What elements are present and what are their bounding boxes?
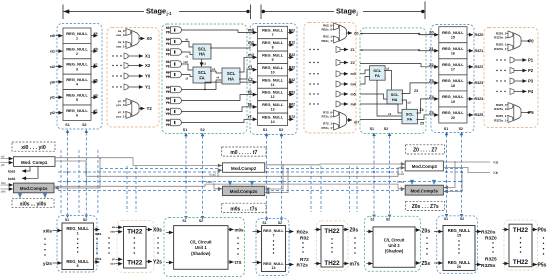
svg-text:R02s_0: R02s_0 [321, 28, 332, 32]
dashed label box xi0s...yi0s [12, 199, 54, 208]
output xc [91, 63, 98, 67]
module comparator Mod.Comp2s [223, 186, 265, 195]
svg-text:yc: yc [94, 109, 98, 113]
wire FA1 sum s2 [384, 66, 391, 89]
feedback wire comp2s b [265, 168, 289, 193]
register REG_NULL 10 [258, 64, 288, 76]
svg-text:R3Z0s_0: R3Z0s_0 [494, 36, 507, 40]
select bus horizontal S2 [58, 181, 463, 183]
select vertical S2 C/L 2 [388, 133, 392, 218]
register REG_NULL 13 [258, 101, 288, 113]
svg-text:REG_NULL: REG_NULL [442, 94, 464, 99]
half adder SCL HA 2-1 [387, 90, 403, 104]
svg-text:R3Z0_1: R3Z0_1 [496, 43, 507, 47]
input label c1 [248, 65, 253, 70]
module comparator Mod.Comp1s [14, 183, 55, 193]
AND gate G7 inputs X2 Y1 [166, 96, 182, 105]
svg-text:c1: c1 [203, 62, 207, 66]
select stub into comp2s a [229, 182, 231, 186]
svg-text:R02s: R02s [297, 230, 309, 236]
wire Z1 through [360, 49, 438, 51]
svg-text:14: 14 [271, 120, 275, 124]
input label t5 [248, 90, 252, 95]
shadow register block REG_NULL 7-14 [262, 226, 286, 272]
svg-text:yc_1: yc_1 [118, 110, 125, 114]
svg-text:R32: R32 [289, 66, 295, 70]
select vertical stub mux1 a [126, 166, 128, 212]
wire into C/L2 top [367, 231, 373, 233]
select vertical S2 column 3 [460, 132, 464, 218]
output R22 [288, 53, 296, 57]
svg-text:Koa2: Koa2 [209, 172, 216, 176]
output R3Z5 [467, 113, 483, 117]
register REG_NULL 14 [258, 113, 288, 125]
label R3Z5 [485, 256, 497, 262]
wire into B3 bottom [434, 262, 443, 264]
svg-text:Z3: Z3 [429, 78, 434, 83]
condensed mux row P2 [496, 68, 533, 74]
svg-text:Z1: Z1 [429, 46, 434, 51]
shadow C/L circuit unit 2 box [373, 227, 415, 267]
register REG_NULL 20 [439, 107, 467, 123]
select stub into xi0s box a [19, 193, 21, 198]
svg-text:REG_NULL: REG_NULL [262, 90, 284, 95]
full adder SCL FA 2-1 [370, 66, 386, 81]
B2 output R72s [286, 263, 309, 269]
feedback wire comp3s b [444, 172, 463, 192]
register REG_NULL 6 [63, 105, 91, 120]
svg-text:6: 6 [76, 114, 78, 118]
output R02 [288, 28, 296, 32]
wire m5 into HA [360, 94, 387, 99]
svg-text:P2: P2 [528, 68, 534, 73]
svg-text:Z3: Z3 [414, 89, 418, 93]
svg-text:R72_1: R72_1 [323, 122, 332, 126]
svg-text:9: 9 [272, 58, 274, 62]
svg-text:Mod.Comp1s: Mod.Comp1s [20, 186, 48, 191]
input yi1 [50, 96, 63, 100]
shadow input xi0s [43, 228, 61, 233]
th22 output X0s [146, 228, 162, 234]
AND gate G4 inputs X1 Y1 [166, 60, 182, 69]
dashed container register column 3 [431, 25, 474, 133]
dashed container mux column 1 [107, 28, 159, 128]
output xb [91, 47, 98, 51]
svg-text:R72s: R72s [297, 263, 309, 269]
svg-text:P0: P0 [529, 39, 535, 44]
register REG_NULL 8 [258, 39, 288, 51]
svg-text:m6: m6 [351, 102, 356, 106]
condensed mux row m5 [309, 91, 355, 97]
wire Z2 through [360, 64, 438, 67]
svg-text:P5: P5 [529, 110, 535, 115]
C/L2 output dots [426, 237, 427, 254]
input label Z0 [429, 30, 434, 35]
svg-text:Z5s: Z5s [422, 261, 431, 267]
AND gate G8 inputs X1 Y2 [166, 107, 182, 116]
module comparator Mod.Comp2 [223, 163, 265, 173]
svg-text:S2: S2 [82, 123, 86, 127]
svg-text:t12: t12 [184, 60, 189, 64]
svg-text:xa: xa [112, 225, 116, 229]
wire m4 into FA [360, 77, 370, 85]
svg-text:13: 13 [271, 108, 275, 112]
condensed mux row Z1 [309, 47, 354, 53]
svg-text:R72s_0: R72s_0 [321, 115, 332, 119]
label R72 [300, 257, 309, 263]
output xa [91, 32, 98, 36]
wire into C/L1 bottom [166, 262, 173, 264]
svg-text:R02: R02 [289, 28, 295, 32]
input wires into Mod.Comp1 [1, 156, 13, 167]
select stub into xi0s box b [44, 193, 46, 198]
svg-text:yi0: yi0 [50, 80, 55, 84]
svg-text:t0: t0 [186, 38, 189, 42]
condensed mux row X2 [112, 63, 151, 69]
dashed container TH22 column 2 [317, 221, 349, 271]
B2 output R02s [286, 230, 309, 236]
label R3Z0 [485, 236, 497, 242]
svg-text:m1: m1 [248, 40, 255, 45]
condensed mux row Y0 [112, 73, 151, 79]
wire m6 into FA2 [360, 104, 402, 113]
wire HA2 carry to c1 input [239, 70, 257, 79]
svg-text:t7S: t7S [235, 260, 242, 265]
output ya [91, 78, 98, 82]
mux X0 [116, 29, 152, 49]
select bus horizontal upper [100, 168, 463, 170]
svg-text:kob1: kob1 [8, 177, 16, 181]
dashed label box m0s...t7s [222, 203, 266, 212]
svg-text:X0s: X0s [153, 228, 162, 234]
select labels S1 S2 C/L 1 [183, 128, 205, 132]
svg-text:S1: S1 [263, 128, 267, 132]
input label c2 [248, 77, 253, 82]
dashed container TH22 column 3 [504, 220, 538, 270]
svg-text:4: 4 [76, 83, 78, 87]
wire gate G6 to c2 and t4 [182, 76, 257, 91]
svg-text:REG_NULL: REG_NULL [66, 108, 88, 113]
register REG_NULL 19 [439, 91, 467, 107]
select vertical S1 C/L 2 [372, 133, 376, 218]
svg-text:xas: xas [110, 230, 115, 234]
svg-text:c4: c4 [388, 112, 392, 116]
C/L1 output t7s [228, 260, 242, 265]
svg-text:HA: HA [228, 76, 234, 81]
input label Z4 [429, 94, 434, 99]
svg-text:REG_NULL: REG_NULL [66, 31, 88, 36]
mux Z0 [321, 23, 358, 43]
select labels S1 S2 column 2 [263, 128, 283, 132]
svg-text:18: 18 [451, 84, 455, 88]
svg-text:yc_0: yc_0 [118, 99, 125, 103]
wire m3 into FA [360, 70, 370, 74]
output R3Z1 [467, 49, 483, 53]
select vertical stub mux2 c [349, 166, 351, 212]
input label Z5 [429, 110, 434, 115]
svg-text:R3Z4: R3Z4 [475, 97, 484, 101]
svg-text:t2: t2 [186, 77, 189, 81]
svg-text:c1: c1 [248, 65, 253, 70]
svg-text:j: j [356, 11, 358, 16]
svg-text:R3Z5s: R3Z5s [481, 263, 496, 269]
svg-text:Z0s: Z0s [422, 228, 431, 234]
AND gate G1 inputs X0 Y0 [166, 26, 182, 35]
svg-text:m7: m7 [354, 120, 359, 124]
output kob1 [8, 166, 38, 181]
feedback wire comp2s a [265, 164, 284, 189]
output R62 [288, 103, 296, 107]
C/L2 output Z5s [415, 261, 430, 267]
th22 output dots right [157, 237, 158, 253]
mux P5 [494, 103, 534, 123]
svg-text:Kob3: Kob3 [397, 180, 404, 184]
T2 output dots [354, 237, 355, 253]
svg-text:S2: S2 [278, 221, 282, 225]
register REG_NULL 18 [439, 75, 467, 91]
svg-text:s2: s2 [386, 66, 390, 70]
svg-text:koa1: koa1 [8, 170, 15, 174]
svg-text:10: 10 [271, 70, 275, 74]
svg-text:8: 8 [272, 46, 274, 50]
svg-text:3: 3 [76, 67, 78, 71]
T2 output m7s [343, 262, 360, 268]
svg-text:c5: c5 [408, 101, 412, 105]
svg-text:R3Z5s_0: R3Z5s_0 [494, 107, 507, 111]
svg-text:ycs_1: ycs_1 [116, 114, 125, 118]
select stub into comp3s b [433, 182, 435, 185]
svg-text:t1: t1 [186, 55, 189, 59]
feedback wire comp3s a [444, 161, 456, 187]
svg-text:m3: m3 [351, 72, 356, 76]
svg-text:REG_NULL: REG_NULL [442, 110, 464, 115]
svg-text:TH22: TH22 [513, 227, 529, 234]
svg-text:S2: S2 [83, 218, 87, 222]
dashed container shadow C/L 1 [164, 218, 245, 277]
svg-text:S1: S1 [262, 221, 266, 225]
svg-text:REG_NULL: REG_NULL [262, 53, 284, 58]
svg-text:S1: S1 [182, 219, 186, 223]
svg-text:Y2: Y2 [166, 112, 170, 116]
svg-text:m0s . . . t7s: m0s . . . t7s [230, 207, 257, 213]
bus wire kob long [54, 180, 405, 189]
svg-text:14: 14 [272, 266, 276, 270]
T3 output dots [543, 237, 544, 254]
svg-text:R52: R52 [289, 90, 295, 94]
svg-text:xi1: xi1 [50, 50, 55, 54]
condensed mux row P1 [496, 57, 533, 63]
svg-text:15: 15 [457, 234, 461, 238]
select vertical S2 C/L 1 [201, 133, 205, 220]
svg-text:R3Z0s: R3Z0s [481, 230, 496, 236]
bus wire comp1 to comp2 upper [55, 158, 222, 166]
stage j dimension line [261, 2, 425, 20]
shadow register block REG_NULL 15-20 [443, 226, 475, 271]
svg-text:REG_NULL: REG_NULL [66, 62, 88, 67]
select vertical S1 C/L 1 [184, 133, 188, 220]
output R3Z3 [467, 81, 483, 85]
wire gate G5 t2 [182, 75, 193, 81]
output R3Z0 [467, 33, 483, 37]
condensed mux row m4 [309, 81, 355, 87]
input label Z2 [429, 62, 434, 67]
svg-text:X2: X2 [145, 63, 151, 68]
shadow register block REG_NULL 1-6 [62, 223, 94, 270]
svg-text:S1: S1 [444, 127, 448, 131]
mux m7 [321, 110, 359, 130]
svg-text:S1: S1 [183, 128, 187, 132]
input label t7 [248, 114, 252, 119]
svg-text:ycs: ycs [95, 257, 101, 261]
svg-text:xa_1: xa_1 [118, 40, 125, 44]
svg-text:Koa3: Koa3 [397, 172, 404, 176]
shadow input yi2s [43, 261, 61, 266]
select labels S1 S2 column 3 [444, 127, 463, 131]
wire HA1 sum to m1 [210, 45, 257, 48]
svg-text:R02s_1: R02s_1 [321, 39, 332, 43]
svg-text:REG_NULL: REG_NULL [66, 77, 88, 82]
svg-text:C/L Circuit: C/L Circuit [384, 238, 405, 243]
select vertical stub mux2 a [310, 166, 312, 212]
svg-text:xi0 . . . yi0: xi0 . . . yi0 [21, 145, 46, 151]
svg-text:Z0 . . . . Z7: Z0 . . . . Z7 [413, 148, 437, 154]
dashed container TH22 column 1 [117, 221, 154, 273]
full adder SCL FA 1 [193, 67, 211, 83]
svg-text:Z2: Z2 [351, 61, 355, 65]
register REG_NULL 11 [258, 76, 288, 88]
svg-text:R72_0: R72_0 [323, 110, 332, 114]
half adder SCL HA 1 [193, 44, 211, 59]
svg-text:S2: S2 [200, 128, 204, 132]
svg-text:TH22: TH22 [513, 259, 529, 266]
svg-text:t4: t4 [217, 76, 220, 80]
svg-text:Z5: Z5 [420, 122, 424, 126]
svg-text:R3Z5: R3Z5 [485, 256, 497, 262]
svg-text:7: 7 [272, 33, 274, 37]
dashed label box Z0...Z7 [406, 145, 445, 154]
select stub into comp3s a [411, 182, 413, 185]
svg-text:Y0: Y0 [166, 75, 170, 79]
svg-text:20: 20 [451, 116, 455, 120]
dashed label box m0...t7 [222, 147, 266, 156]
output wire Kib [443, 168, 498, 176]
input xi1 [50, 50, 63, 54]
wire FA2 carry Z5 [417, 115, 439, 126]
svg-text:P0s: P0s [538, 228, 547, 234]
svg-text:TH22: TH22 [127, 228, 143, 235]
svg-text:xc: xc [94, 63, 98, 67]
wire gate G8 to t6 [182, 107, 257, 112]
joining gate block TH22 column 3 [509, 224, 532, 267]
svg-text:REG_NULL: REG_NULL [442, 46, 464, 51]
svg-text:S1: S1 [65, 123, 69, 127]
wire into T3 bottom [503, 263, 509, 265]
svg-text:R3Z3: R3Z3 [475, 81, 484, 85]
dashed label box Z0s...Z7s [406, 201, 445, 210]
register REG_NULL 9 [258, 51, 288, 63]
svg-text:Y1: Y1 [166, 64, 170, 68]
svg-text:R42: R42 [289, 78, 295, 82]
svg-text:X1: X1 [145, 54, 151, 59]
wire HA carry c5 [402, 100, 412, 109]
wire FA sum s1 [210, 67, 222, 73]
svg-text:TH22: TH22 [324, 260, 340, 267]
svg-text:R3Z5_1: R3Z5_1 [496, 114, 507, 118]
svg-text:7: 7 [273, 233, 275, 237]
svg-text:S1: S1 [444, 217, 448, 221]
svg-text:S2: S2 [279, 128, 283, 132]
wire FA1 carry c4 [377, 80, 402, 116]
joining gate block TH22 column 2 [321, 226, 343, 268]
wire HA1 carry c1 [202, 59, 207, 67]
condensed mux row m6 [309, 101, 355, 107]
input wires into Mod.Comp1s [1, 182, 13, 193]
svg-text:Z0s . . . Z7s: Z0s . . . Z7s [412, 204, 439, 210]
svg-text:Mod.Comp3: Mod.Comp3 [412, 164, 438, 169]
svg-text:Y0: Y0 [145, 74, 151, 79]
svg-text:P4: P4 [528, 89, 534, 94]
output R3Z2 [467, 65, 483, 69]
svg-text:Y2: Y2 [166, 90, 170, 94]
select labels S1 S2 column 1 [65, 123, 86, 127]
svg-text:Y0: Y0 [166, 30, 170, 34]
condensed mux row X1 [112, 53, 151, 59]
svg-text:m2: m2 [248, 52, 255, 57]
svg-text:19: 19 [451, 100, 455, 104]
B2 output dots [302, 242, 303, 252]
svg-text:Unit 2: Unit 2 [388, 243, 400, 248]
svg-text:ycs_0: ycs_0 [116, 103, 125, 107]
svg-text:R3Z0: R3Z0 [485, 236, 497, 242]
svg-text:5: 5 [76, 98, 78, 102]
svg-text:Mod.Comp2s: Mod.Comp2s [230, 189, 258, 194]
AND gate G6 inputs X0 Y2 [166, 85, 182, 94]
shadow output xas [94, 230, 102, 236]
input label m1 [248, 40, 255, 45]
svg-text:m5: m5 [351, 92, 356, 96]
svg-text:HA: HA [392, 97, 398, 102]
select labels S1 S2 C/L 2 [370, 127, 389, 131]
register REG_NULL 12 [258, 88, 288, 100]
dashed container C/L circuit 1 [162, 24, 247, 134]
svg-text:Stage: Stage [336, 6, 356, 15]
svg-text:R62: R62 [289, 103, 295, 107]
condensed mux row P3 [496, 78, 533, 84]
svg-text:yi2s: yi2s [43, 261, 52, 266]
svg-text:TH22: TH22 [127, 260, 143, 267]
dashed container shadow registers 7-14 [256, 219, 289, 276]
condensed mux row P4 [496, 88, 533, 94]
register REG_NULL 2 [63, 43, 91, 58]
svg-text:m7s: m7s [350, 262, 360, 268]
svg-text:15: 15 [451, 36, 455, 40]
select vertical S2 column 2 [280, 133, 284, 221]
svg-text:REG_NULL: REG_NULL [262, 102, 284, 107]
output koa1 [8, 166, 30, 173]
condensed mux row Z2 [309, 60, 354, 66]
svg-text:REG_NULL: REG_NULL [448, 260, 471, 265]
shadow C/L circuit unit 1 box [174, 226, 228, 270]
svg-text:Y1: Y1 [145, 85, 151, 90]
output R72 [288, 115, 296, 119]
svg-text:Z4: Z4 [420, 108, 424, 112]
wire HA sum Z3 [402, 83, 439, 94]
shadow input dots [44, 238, 45, 255]
AND gate G5 inputs X2 Y0 [166, 70, 182, 79]
feedback wire comp1s right [55, 157, 101, 188]
svg-text:Y2s: Y2s [153, 260, 162, 266]
svg-text:(Shadow): (Shadow) [385, 249, 404, 254]
